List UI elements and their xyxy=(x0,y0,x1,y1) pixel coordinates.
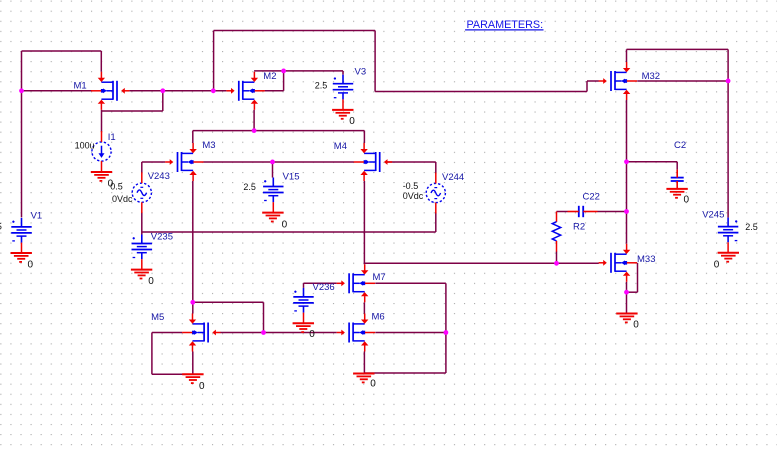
ground 0 under I1 xyxy=(91,172,112,181)
wire V243 minus to V244 minus xyxy=(142,231,436,233)
wire M1 source tie horizontal xyxy=(102,110,163,112)
svg-text:0: 0 xyxy=(28,260,34,271)
wire M33 bulk drop xyxy=(637,263,639,292)
svg-text:R2: R2 xyxy=(573,222,585,233)
wire M7 bulk right xyxy=(375,282,446,284)
junction left rail / M1 bulk xyxy=(19,88,24,93)
svg-text:I1: I1 xyxy=(108,132,116,143)
svg-text:V243: V243 xyxy=(148,171,170,182)
wire top rail horizontal xyxy=(214,30,376,32)
svg-text:PARAMETERS:: PARAMETERS: xyxy=(467,19,544,31)
junction M6-M7 bulk tie xyxy=(444,330,449,335)
svg-text:0: 0 xyxy=(108,179,114,190)
wire M1 source tie vertical xyxy=(162,91,164,111)
svg-text:2.5: 2.5 xyxy=(745,222,758,232)
wire rail to M4 drain xyxy=(363,131,365,143)
svg-text:V3: V3 xyxy=(355,66,367,77)
junction M1 source-gate tie xyxy=(160,88,165,93)
wire V244 top stub xyxy=(435,162,437,174)
svg-text:M32: M32 xyxy=(642,71,660,82)
voltage source V236 xyxy=(293,288,314,323)
voltage source V1 xyxy=(11,218,32,253)
junction C22 tap xyxy=(624,209,629,214)
svg-text:100u: 100u xyxy=(75,140,95,150)
wire M1 source to I1 xyxy=(101,110,103,132)
wire M4 gate to V244 xyxy=(387,161,436,163)
wire V244 bottom riser xyxy=(435,212,437,232)
wire left rail to V1 xyxy=(21,51,23,217)
svg-text:C22: C22 xyxy=(583,192,600,203)
wire M5 gate tie horizontal xyxy=(193,301,264,303)
svg-text:V235: V235 xyxy=(151,232,173,243)
svg-text:0: 0 xyxy=(309,329,315,340)
wire to M6 gate xyxy=(264,332,337,334)
transistor M4 xyxy=(354,143,392,181)
wire bulk return to M6 source xyxy=(364,372,446,374)
capacitor C2 xyxy=(671,170,684,189)
svg-text:0Vdc: 0Vdc xyxy=(112,194,133,204)
junction C2 tap xyxy=(624,159,629,164)
wire C22 left xyxy=(557,211,568,213)
junction M2 drain-bulk xyxy=(281,69,286,74)
svg-text:M2: M2 xyxy=(263,71,276,82)
wire M2 drain to M2 bulk xyxy=(283,71,285,91)
wire to M5 drain xyxy=(192,302,194,313)
voltage source V235 xyxy=(132,235,153,270)
underline of PARAMETERS xyxy=(465,29,543,31)
wire M32 bulk to right rail xyxy=(637,80,728,82)
wire M2 source drop xyxy=(253,110,255,131)
ground 0 under V236 xyxy=(293,323,314,332)
wire M5 bulk left xyxy=(152,332,182,334)
ground 0 under V235 xyxy=(131,270,152,279)
svg-text:M1: M1 xyxy=(74,81,87,92)
wire down to M1 drain xyxy=(100,51,102,72)
transistor M6 xyxy=(337,314,375,352)
wire M3-M4 drain rail xyxy=(193,130,365,132)
svg-text:V1: V1 xyxy=(31,211,43,222)
transistor M3 xyxy=(165,143,203,181)
wire M5 source to ground xyxy=(192,352,194,375)
ground 0 under M33 xyxy=(616,314,637,323)
wire V236 to M7 gate xyxy=(304,282,337,284)
transistor M33 xyxy=(599,244,637,282)
wire to C2 horizontal xyxy=(627,161,678,163)
wire M2 bulk horizontal xyxy=(265,90,284,92)
svg-text:V245: V245 xyxy=(702,210,724,221)
voltage source V3 xyxy=(333,75,354,110)
svg-text:M6: M6 xyxy=(372,312,385,323)
transistor M5 xyxy=(182,314,220,352)
wire right rail to V245 xyxy=(727,49,729,217)
junction M32 drain-bulk / V245 rail xyxy=(726,79,731,84)
svg-text:0Vdc: 0Vdc xyxy=(403,191,424,201)
wire into M32 gate pin xyxy=(587,80,599,82)
junction V15 tap xyxy=(270,160,275,165)
wire M6 source to ground xyxy=(363,352,365,374)
svg-text:0: 0 xyxy=(633,320,639,331)
wire C22 right xyxy=(598,211,627,213)
wire M7 drain to M33 gate xyxy=(364,262,598,264)
svg-text:0: 0 xyxy=(684,195,690,206)
svg-text:5: 5 xyxy=(0,222,2,232)
junction R2 / M33 gate wire xyxy=(554,261,559,266)
svg-text:V15: V15 xyxy=(283,172,300,183)
transistor M1 xyxy=(91,72,129,110)
wire M32 drain riser xyxy=(626,49,628,62)
svg-text:0: 0 xyxy=(714,259,720,270)
ground 0 under V15 xyxy=(262,213,283,222)
wire M7 source to M6 drain xyxy=(363,302,365,313)
voltage source V15 xyxy=(263,178,284,213)
wire M5 bulk drop xyxy=(151,333,153,375)
wire M3 bulk to M4 bulk rail xyxy=(204,161,354,163)
wire M5 gate tie vertical xyxy=(263,302,265,332)
wire VDD top-left horizontal xyxy=(22,50,102,52)
wire M33 bulk return xyxy=(627,291,638,293)
wire to M5 gate xyxy=(220,332,263,334)
svg-text:0: 0 xyxy=(282,220,288,231)
wire to M32 gate horizontal xyxy=(375,91,587,93)
voltage source V245 xyxy=(718,218,739,253)
wire V15 top stub xyxy=(272,162,274,178)
current source I1 xyxy=(92,131,111,172)
wire top rail right drop xyxy=(374,31,376,92)
wire R2 bottom drop xyxy=(556,252,558,264)
svg-text:M33: M33 xyxy=(637,254,655,265)
ground 0 under V1 xyxy=(11,253,32,262)
wire V243 to M3 gate xyxy=(142,161,165,163)
wire left rail to M1 bulk xyxy=(22,90,93,92)
junction top rail / M1-M2 gate xyxy=(211,88,216,93)
transistor M7 xyxy=(337,264,375,302)
ground 0 under M5 xyxy=(182,374,203,383)
ground 0 under C2 xyxy=(666,189,687,198)
wire M33 source to ground xyxy=(626,282,628,314)
ground 0 under M6 xyxy=(353,374,374,383)
svg-text:0: 0 xyxy=(349,116,355,127)
svg-text:C2: C2 xyxy=(674,140,686,151)
capacitor C22 xyxy=(568,206,598,217)
svg-text:-0.5: -0.5 xyxy=(403,181,419,191)
wire M2 drain to V3 xyxy=(254,70,343,72)
svg-text:0: 0 xyxy=(148,276,154,287)
wire M6 bulk right xyxy=(375,332,446,334)
wire M4 source down to M7 drain xyxy=(363,181,365,264)
svg-text:2.5: 2.5 xyxy=(243,182,256,192)
svg-text:V244: V244 xyxy=(442,172,464,183)
ground 0 under V3 xyxy=(332,110,353,119)
wire V243 top stub xyxy=(141,162,143,173)
svg-text:0: 0 xyxy=(370,379,376,390)
wire V3 top stub xyxy=(342,71,344,75)
wire bulk drop right of M6 xyxy=(445,283,447,373)
svg-text:V236: V236 xyxy=(313,282,335,293)
svg-text:M5: M5 xyxy=(151,312,164,323)
svg-text:2.5: 2.5 xyxy=(315,80,328,90)
wire M32 source to M33 drain xyxy=(626,100,628,244)
junction M33 source-bulk tie xyxy=(624,290,629,295)
wire M32 drain rail xyxy=(627,48,729,50)
ground 0 under V245 xyxy=(718,253,739,262)
voltage source V243 xyxy=(132,172,151,213)
junction M5-M6 gate tie xyxy=(261,330,266,335)
svg-text:M3: M3 xyxy=(202,140,215,151)
transistor M2 xyxy=(226,72,264,110)
transistor M32 xyxy=(599,62,637,100)
wire to M32 gate riser xyxy=(586,81,588,92)
wire M5 bulk return xyxy=(152,373,193,375)
wire V243 bottom to V235 xyxy=(141,212,143,234)
wire M3 source down xyxy=(192,181,194,302)
svg-text:M4: M4 xyxy=(334,141,347,152)
resistor R2 xyxy=(552,212,560,252)
wire C2 top stub xyxy=(676,162,678,170)
wire V236 top stub xyxy=(303,283,305,288)
wire M1 gate to M2 gate xyxy=(129,90,226,92)
wire rail to M3 drain xyxy=(192,131,194,143)
junction M3 source / M5 gate xyxy=(190,300,195,305)
svg-text:M7: M7 xyxy=(373,272,386,283)
wire top rail left drop xyxy=(213,31,215,91)
svg-text:0: 0 xyxy=(199,381,205,392)
junction M2 source / mirror rail xyxy=(252,128,257,133)
voltage source V244 xyxy=(426,173,445,214)
